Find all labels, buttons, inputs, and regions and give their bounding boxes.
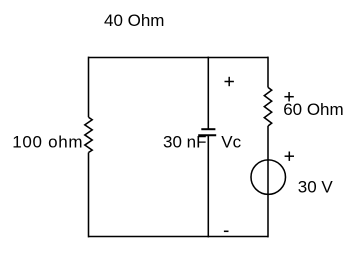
svg-text:30 V: 30 V [298,177,334,196]
polarity - for Vc (capacitor bottom) [224,230,229,232]
resistor R1 (100 ohm) zigzag [85,117,92,152]
voltage source V1 (30 V) circle [251,160,286,195]
wire: bottom horizontal [89,236,269,238]
wire: right upper segment [267,57,269,88]
svg-text:40 Ohm: 40 Ohm [104,11,164,30]
wire: top horizontal [89,57,269,59]
svg-text:100 ohm: 100 ohm [12,133,83,152]
svg-text:60 Ohm: 60 Ohm [283,100,343,119]
wire: left lower segment [88,153,90,238]
wire: left upper segment [88,57,90,118]
polarity + for Vc (capacitor top) [225,77,234,86]
wire: right lower segment (through source) [267,126,269,237]
capacitor C1 (30 nF) plates [198,129,216,135]
wire: middle upper segment [207,57,209,130]
polarity + for 30 V source [285,152,294,161]
polarity + for 60 Ohm [284,92,293,101]
resistor R2 (60 Ohm) zigzag [264,87,271,126]
wire: middle lower segment [207,135,209,237]
svg-text:30 nF: 30 nF [163,133,206,152]
svg-text:Vc: Vc [221,133,241,152]
